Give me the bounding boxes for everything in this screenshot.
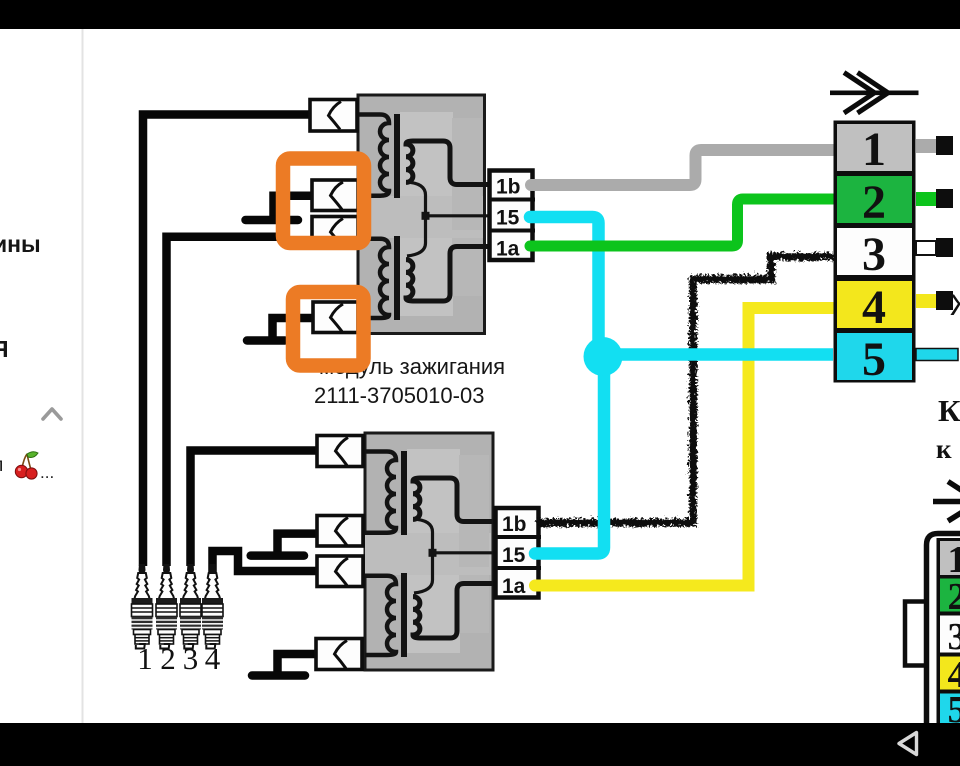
spark plug 2 [156,564,177,649]
X1 terminal 2 [916,189,953,208]
X1 cell 1 [837,124,912,171]
gray wire U1 1b to connector pin 1 [531,150,833,185]
wire plug4 to U2 lower-middle terminal [213,551,318,588]
U1 transformer T2 core [394,236,400,320]
left panel separator [82,29,84,723]
U1 node junction on 15 [422,212,430,220]
U2 pin 15 lead [433,551,496,554]
orange highlight box 2 [293,292,364,366]
svg-text:1a: 1a [496,238,520,261]
svg-text:2: 2 [948,576,960,618]
ground stub G4 at U2 bottom [252,654,315,676]
cyan wire from U1 pin 15 down to junction [530,217,599,352]
ignition module U1 body [358,95,485,334]
cyan wire junction to U2 pin 15 and to connector pin 5 [535,358,604,554]
U2 T1 secondary coil and HV path to 1b [413,478,495,522]
U1 secondary return wire to pin 15 [406,182,426,256]
spark plug 3 [180,564,201,649]
svg-text:2: 2 [160,641,176,676]
ground stub G2 at U1 bottom [247,318,312,341]
wire plug3 to U2 top terminal [191,451,318,567]
ground stub G3 at U2 upper-middle [251,534,317,556]
U2 T1 primary coil [365,452,396,533]
svg-text:3: 3 [183,641,199,676]
svg-text:2: 2 [862,176,886,229]
svg-text:15: 15 [496,207,520,230]
X2 cell 5 [940,694,960,724]
X2 cell 3 [940,616,960,653]
svg-text:5: 5 [862,333,886,386]
ignition module U2 body [365,433,493,670]
top status bar [0,0,960,29]
U1 T2 primary coil [358,239,389,318]
svg-text:1b: 1b [502,513,527,536]
orange highlight box 1 [283,159,364,244]
U2 node junction on 15 [429,549,437,557]
U1 pin 15 lead [426,214,489,217]
U1 T2 secondary coil and HV path to 1a [406,247,488,302]
U1 terminal box lower-middle [312,217,358,248]
X1 terminal 1 [916,136,953,155]
X2 cell 1 [940,541,960,575]
connector X1 body [834,121,916,383]
X2 arrow symbol partial [933,482,960,522]
U2 secondary return wire to pin 15 [413,519,433,593]
connector X1 arrow symbol [830,73,919,114]
X1 terminal 5 [916,349,958,361]
U2 terminal box lower-middle [317,556,363,587]
U1 terminal box top [310,100,357,132]
U2 pin box [494,508,541,598]
ground stub G1 at U1 upper-middle [246,196,312,220]
bottom navigation bar [0,723,960,766]
back triangle icon [899,733,917,755]
U2 terminal box bottom [316,639,362,670]
X1 cell 4 [837,281,912,328]
svg-text:1b: 1b [496,176,521,199]
U1 terminal box bottom [313,302,358,333]
svg-text:1a: 1a [502,575,526,598]
U2 T2 secondary coil and HV path to 1a [413,584,495,639]
wire plug2 to U1 lower-middle terminal [167,237,278,566]
collapse chevron icon [43,409,61,419]
X1 cell 2 [837,176,912,223]
svg-text:2111-3705010-03: 2111-3705010-03 [314,383,484,408]
X1 terminal 3 [916,238,953,257]
svg-text:4: 4 [205,641,221,676]
cyan junction node [584,337,623,376]
green wire U1 1a to connector pin 2 [530,199,833,246]
X1 terminal 4 [916,291,953,310]
U2 terminal box top [317,436,363,467]
U1 T1 secondary coil and HV path to 1b [406,141,488,185]
svg-text:п: п [0,455,3,476]
spark plug 4 [202,564,223,649]
U2 transformer T1 core [401,451,407,535]
svg-text:к: к [936,434,952,464]
U1 transformer T1 core [394,114,400,198]
svg-text:3: 3 [862,228,886,281]
sketchy black wire U2 1b to connector pin 3 [536,255,833,521]
spark plug 1 [132,564,153,649]
svg-text:Я: Я [0,336,9,362]
svg-text:4: 4 [862,281,886,334]
X1 cell 5 [837,333,912,380]
X1 cell 3 [837,228,912,275]
U1 terminal box upper-middle [312,180,358,211]
svg-text:3: 3 [948,616,960,658]
svg-text:К: К [938,393,960,428]
svg-text:1: 1 [862,123,886,176]
X2 latch tab [905,602,926,666]
svg-text:ины: ины [0,231,41,257]
U2 T2 primary coil [365,576,396,655]
svg-text:15: 15 [502,544,526,567]
svg-text:Ж: Ж [950,289,960,322]
X2 cells column [937,538,960,723]
svg-text:1: 1 [948,539,960,581]
U2 transformer T2 core [401,573,407,657]
cherry emoji [15,452,38,479]
U2 terminal box upper-middle [317,516,363,547]
wire plug1 to U1 top terminal [143,115,309,567]
svg-text:1: 1 [137,641,153,676]
U1 pin box [488,171,535,261]
yellow wire U2 1a to connector pin 4 [535,308,833,586]
X2 cell 2 [940,579,960,612]
U1 T1 primary coil [358,115,389,196]
X2 body outline [927,534,960,724]
svg-text:...: ... [40,463,54,482]
X2 cell 4 [940,657,960,690]
